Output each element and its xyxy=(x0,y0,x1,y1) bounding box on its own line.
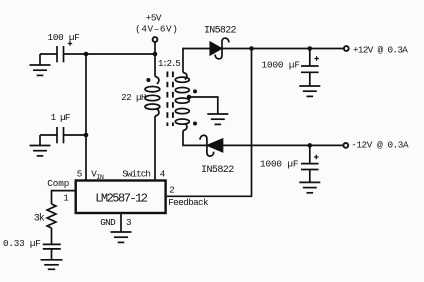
node: feedback tap on +12V rail xyxy=(249,46,254,51)
ground G1 (under C1) xyxy=(30,54,51,75)
wire: input rail C1 to +5V node xyxy=(40,53,155,55)
ground G2 (under C2) xyxy=(30,135,51,156)
svg-text:IN5822: IN5822 xyxy=(201,165,234,176)
transformer T1 secondary winding xyxy=(175,73,189,131)
svg-text:1000 µF: 1000 µF xyxy=(262,59,300,70)
svg-text:GND: GND xyxy=(100,217,116,228)
transformer T1 phasing dot (secondary bottom) xyxy=(193,122,197,126)
ground G6 (IC GND) xyxy=(111,232,132,242)
node: C3 junction on +12V rail xyxy=(308,46,313,51)
svg-text:22 µH: 22 µH xyxy=(121,93,146,103)
wire: center tap to ground xyxy=(189,97,218,114)
capacitor C1 100uF xyxy=(57,41,72,62)
diode D2 IN5822 (schottky, -12V rectifier) xyxy=(200,135,222,156)
capacitor C2 1uF xyxy=(57,127,64,143)
svg-text:5: 5 xyxy=(77,169,82,180)
svg-text:4: 4 xyxy=(160,169,166,180)
terminal: +5V input xyxy=(153,37,158,54)
svg-text:+12V @ 0.3A: +12V @ 0.3A xyxy=(353,44,408,55)
wire: -12V rail down to C4 xyxy=(309,145,311,163)
wire: 1uF rail xyxy=(40,134,86,136)
ground G4 (under C3) xyxy=(299,72,320,96)
wire: Vin bus to pin 5 xyxy=(85,54,87,180)
resistor R1 3k xyxy=(47,204,56,228)
svg-text:+5V: +5V xyxy=(146,12,162,23)
wire: +12V rail down to C3 xyxy=(309,49,311,67)
svg-text:1:2.5: 1:2.5 xyxy=(158,58,180,69)
wire: secondary top lead to D1 xyxy=(183,49,210,73)
ground G7 (under C5) xyxy=(41,249,63,269)
svg-text:Comp: Comp xyxy=(47,178,69,189)
node: C4 junction on -12V rail xyxy=(308,143,313,148)
wire: D1 cathode to +12V terminal xyxy=(222,48,344,50)
capacitor C3 1000uF xyxy=(301,56,319,72)
svg-text:LM2587-12: LM2587-12 xyxy=(95,192,148,206)
svg-text:IN5822: IN5822 xyxy=(204,26,237,37)
svg-text:1000 µF: 1000 µF xyxy=(260,159,298,170)
ground G5 (under C4) xyxy=(299,170,320,193)
transformer T1 phasing dot (secondary top) xyxy=(193,89,197,93)
wire: primary bottom lead to Switch pin 4 xyxy=(154,116,156,180)
svg-text:(4V–6V): (4V–6V) xyxy=(135,24,178,35)
transformer T1 phasing dot (primary) xyxy=(146,78,150,82)
wire: secondary bottom lead to D2 xyxy=(183,131,207,146)
terminal: -12V output xyxy=(343,143,348,148)
wire: R1 to C5 xyxy=(51,228,53,244)
transformer T1 core xyxy=(167,72,173,127)
svg-text:Switch: Switch xyxy=(122,169,150,180)
wire: feedback from pin 2 to +12V rail xyxy=(167,49,252,197)
svg-text:-12V @ 0.3A: -12V @ 0.3A xyxy=(351,139,409,150)
node: +5V input junction xyxy=(153,52,158,57)
svg-text:0.33 µF: 0.33 µF xyxy=(3,238,41,249)
svg-text:2: 2 xyxy=(169,185,174,196)
capacitor C5 0.33uF xyxy=(43,244,61,249)
node: 1uF / Vin bus junction xyxy=(84,133,89,138)
wire: primary top lead xyxy=(154,54,156,77)
svg-text:Feedback: Feedback xyxy=(168,197,209,208)
wire: D2 anode to -12V terminal xyxy=(223,144,344,146)
terminal: +12V output xyxy=(344,46,349,51)
svg-text:3k: 3k xyxy=(34,213,45,225)
wire: Comp pin 1 to R1 xyxy=(52,191,76,204)
ground G3 (center tap) xyxy=(207,114,228,124)
svg-text:3: 3 xyxy=(126,217,131,228)
svg-text:1 µF: 1 µF xyxy=(51,112,70,123)
wire: GND pin 3 xyxy=(120,213,122,232)
svg-text:100 µF: 100 µF xyxy=(48,32,80,43)
transformer T1 primary winding (22 uH) xyxy=(145,77,160,117)
capacitor C4 1000uF xyxy=(301,155,319,170)
diode D1 IN5822 (schottky, +12V rectifier) xyxy=(210,38,229,59)
op-amp U1: IC LM2587-12 box xyxy=(76,181,166,214)
node: secondary center tap xyxy=(187,95,192,100)
node: C1 / Vin bus junction xyxy=(84,52,89,57)
